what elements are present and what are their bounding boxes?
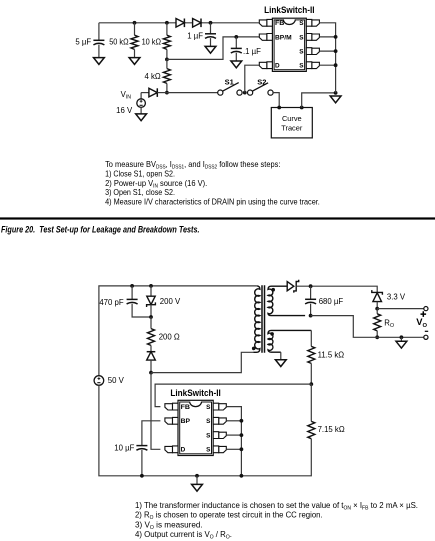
pin FB (left row 1) — [259, 20, 267, 26]
wire S pin row2 to rail (bottom) — [226, 420, 241, 422]
pin S (right row 4) — [312, 62, 320, 68]
svg-text:VO: VO — [416, 316, 427, 329]
wire Vin diode anode lead — [141, 92, 149, 94]
svg-text:7.15 kΩ: 7.15 kΩ — [318, 425, 345, 434]
svg-text:FB: FB — [275, 20, 285, 27]
node after diodes — [209, 21, 213, 25]
output terminal plus — [424, 307, 428, 311]
wire diode to drain node — [150, 360, 152, 373]
wire 1uF bottom lead — [210, 38, 212, 46]
svg-text:10 kΩ: 10 kΩ — [142, 38, 162, 47]
wire S2 to curve tracer — [273, 93, 279, 108]
source Vin 16V — [137, 99, 146, 108]
svg-text:S: S — [299, 34, 304, 41]
node rail-50k junction — [133, 21, 137, 25]
capacitor 0.1 uF — [231, 47, 242, 49]
pin FB (left row 1) — [165, 404, 173, 410]
node curve tracer left terminal — [277, 106, 281, 110]
pin S (right row 2) — [312, 34, 320, 40]
wire 5uF top lead — [98, 23, 100, 41]
wire 10k node to BP/M — [167, 37, 259, 60]
pin S (right row 3) — [219, 432, 227, 438]
transformer T1 secondary winding — [268, 286, 305, 315]
wire plus node to terminal — [377, 308, 424, 310]
node BP/M - 0.1uF junction — [234, 35, 238, 39]
wire S pin row3 to rail — [319, 50, 335, 52]
node S rail row3 (bottom) — [240, 433, 244, 437]
polarity dot bias winding — [270, 332, 274, 336]
wire 470pF bottom lead — [132, 304, 151, 317]
pin S (right row 2) — [219, 418, 227, 424]
pin BP/M (left row 2) — [259, 34, 267, 40]
wire bottom rail ground stem — [196, 476, 198, 485]
wire 680uF top lead — [310, 286, 312, 299]
node S rail row2 (bottom) — [240, 419, 244, 423]
curve tracer box — [271, 108, 312, 138]
node S rail row3 — [334, 49, 338, 53]
node curve tracer right terminal — [300, 106, 304, 110]
resistor 50 kOhm — [131, 35, 138, 49]
node 680uF bottom junction — [309, 314, 313, 318]
wire Vin source top lead — [140, 93, 142, 99]
node rail-10k junction — [165, 21, 169, 25]
wire drain to D pin (bottom IC) — [151, 373, 160, 450]
svg-text:11.5 kΩ: 11.5 kΩ — [318, 350, 345, 359]
ground at bottom rail — [192, 484, 203, 491]
svg-text:S: S — [299, 63, 304, 70]
svg-text:680 µF: 680 µF — [319, 297, 344, 306]
svg-text:10 µF: 10 µF — [114, 444, 134, 453]
wire 5uF bottom lead — [98, 45, 100, 58]
switch S1 left terminal — [218, 90, 223, 95]
pin S (right row 1) — [312, 20, 320, 26]
wire diode to output rail — [296, 286, 377, 292]
svg-text:.1 µF: .1 µF — [243, 47, 261, 56]
polarity dot secondary — [271, 288, 275, 292]
pin D (left row 4) — [259, 62, 267, 68]
pin BP (left row 2) — [165, 418, 173, 424]
svg-text:4 kΩ: 4 kΩ — [144, 72, 160, 81]
ground below 5uF — [94, 58, 105, 65]
svg-text:BP/M: BP/M — [275, 34, 292, 41]
svg-text:D: D — [181, 447, 186, 454]
wire drain node to primary — [151, 352, 253, 372]
wire 0.1uF top lead — [235, 37, 237, 49]
resistor Ro — [374, 314, 381, 331]
wire 50V left rail bottom — [99, 385, 311, 476]
capacitor 5 uF — [93, 39, 104, 41]
node 680uF top junction — [309, 284, 313, 288]
wire S pin row4 to rail (bottom) — [226, 448, 241, 450]
capacitor 680 uF — [305, 298, 316, 300]
wire output ground stem — [400, 337, 402, 341]
svg-text:4) Output current is VO / RO.: 4) Output current is VO / RO. — [135, 530, 232, 541]
svg-text:RO: RO — [384, 318, 394, 329]
svg-text:50 V: 50 V — [108, 376, 125, 385]
wire Vin diode cathode lead — [157, 92, 167, 94]
wire S pin row3 to rail (bottom) — [226, 434, 241, 436]
ground below 0.1uF — [231, 61, 242, 68]
switch S1 right terminal — [237, 90, 242, 95]
svg-text:200 Ω: 200 Ω — [159, 332, 180, 341]
node ground bottom rail junction — [195, 474, 199, 478]
wire zener to plus node — [376, 302, 378, 309]
resistor 11.5 kOhm — [308, 346, 315, 363]
capacitor 10 uF — [136, 445, 147, 447]
wire 10uF bottom lead — [141, 450, 143, 476]
svg-text:5 µF: 5 µF — [75, 38, 91, 47]
svg-text:16 V: 16 V — [116, 106, 133, 115]
resistor 4 kOhm — [163, 69, 170, 84]
wire zener bottom lead — [150, 305, 152, 317]
svg-text:VIN: VIN — [121, 90, 132, 101]
ground at output return — [396, 341, 407, 348]
node output ground junction — [400, 335, 404, 339]
node S rail row2 — [334, 35, 338, 39]
svg-text:LinkSwitch-II: LinkSwitch-II — [170, 388, 220, 398]
wire zener 200V top lead — [150, 286, 152, 296]
diode D5 (clamp) — [147, 351, 156, 353]
wire BP pin to 10uF — [142, 421, 161, 446]
svg-text:3.3 V: 3.3 V — [387, 293, 406, 302]
node rail-470pF junction — [130, 284, 134, 288]
ground below bias winding — [275, 360, 286, 367]
node S rail row4 — [334, 63, 338, 67]
IC U2 LinkSwitch-II (bottom) — [178, 400, 213, 455]
wire secondary return — [311, 316, 425, 338]
op IC U1 LinkSwitch-II (top) — [272, 18, 306, 71]
svg-text:1) Close S1, open S2.: 1) Close S1, open S2. — [105, 169, 175, 178]
wire 1uF top lead — [210, 23, 212, 34]
node source-return ground junction — [334, 91, 338, 95]
wire 4k bottom lead — [166, 83, 168, 92]
wire Ro bottom lead — [376, 331, 378, 338]
svg-text:1 µF: 1 µF — [187, 32, 203, 41]
svg-text:D: D — [275, 63, 280, 70]
wire S pin row4 to rail — [319, 64, 335, 66]
node output plus junction — [375, 307, 379, 311]
svg-text:S: S — [206, 418, 211, 425]
switch S2 arm — [252, 83, 268, 91]
ground below 1uF — [205, 46, 216, 53]
svg-text:S: S — [206, 433, 211, 440]
capacitor 1 uF — [205, 33, 216, 35]
zener diode VR2 3.3V — [372, 290, 383, 295]
wire 200ohm to diode — [150, 345, 152, 351]
svg-text:S2: S2 — [257, 77, 266, 86]
switch S2 right terminal — [268, 90, 273, 95]
svg-text:S: S — [299, 49, 304, 56]
node rail-zener junction — [149, 284, 153, 288]
svg-text:BP: BP — [181, 418, 191, 425]
wire 11.5k to FB node — [310, 363, 312, 384]
wire FB node to FB pin — [155, 384, 311, 407]
resistor 200 Ohm — [148, 329, 155, 346]
diode D3 (Vin series) — [149, 88, 157, 97]
svg-text:LinkSwitch-II: LinkSwitch-II — [264, 5, 314, 15]
node S rail bottom rail junction — [240, 474, 244, 478]
switch S1 arm — [223, 83, 239, 92]
transformer T1 primary winding — [253, 286, 260, 352]
ground at source rail — [330, 96, 341, 103]
wire bias winding to ground — [280, 352, 282, 360]
wire 0.1uF bottom lead — [235, 53, 237, 61]
wire S pin row1 to rail (bottom) — [226, 407, 241, 476]
svg-text:S: S — [206, 404, 211, 411]
svg-text:Curve: Curve — [282, 114, 302, 123]
node FB divider junction — [309, 382, 313, 386]
svg-text:FB: FB — [181, 404, 191, 411]
svg-text:200 V: 200 V — [160, 297, 181, 306]
capacitor 470 pF — [127, 298, 138, 300]
svg-text:470 pF: 470 pF — [99, 298, 124, 307]
pin S (right row 4) — [219, 446, 227, 452]
svg-text:Tracer: Tracer — [281, 124, 303, 133]
label plus sign — [421, 311, 427, 317]
pin D (left row 4) — [165, 446, 173, 452]
svg-text:S1: S1 — [225, 77, 234, 86]
schottky diode D4 (output rectifier) — [287, 282, 294, 291]
wire S pin row1 to rail — [319, 23, 335, 93]
diode D1 (series, top rail) — [176, 19, 184, 28]
source 50V DC — [94, 376, 104, 386]
separator rule — [0, 217, 435, 219]
wire node to S1 — [167, 92, 218, 94]
transformer T1 core — [262, 285, 265, 353]
wire Vin source bottom lead — [140, 107, 142, 114]
wire S pin row2 to rail — [319, 36, 335, 38]
polarity dot primary — [252, 347, 256, 351]
wire 10k top lead — [166, 23, 168, 35]
svg-text:50 kΩ: 50 kΩ — [109, 38, 129, 47]
wire 50k top lead — [134, 23, 136, 35]
wire 4k top lead — [166, 59, 168, 68]
node Ro bottom junction — [375, 335, 379, 339]
resistor 7.15 kOhm — [308, 421, 315, 438]
wire Ro top lead — [376, 309, 378, 314]
wire 10k bottom lead — [166, 49, 168, 59]
transformer T1 bias winding — [268, 330, 311, 352]
wire 470pF top lead — [131, 286, 133, 300]
wire D pin to switch center — [245, 65, 259, 92]
node S rail row4 (bottom) — [240, 447, 244, 451]
resistor 10 kOhm — [163, 35, 170, 49]
pin S (right row 1) — [219, 404, 227, 410]
switch S2 left terminal — [248, 90, 253, 95]
ground below Vin source — [136, 114, 147, 121]
wire 50V left rail top — [99, 286, 257, 376]
node Vin-4k-S1 junction — [165, 91, 169, 95]
svg-text:S: S — [206, 447, 211, 454]
wire top rail — [99, 22, 259, 24]
label minus sign — [425, 330, 428, 332]
wire 11.5k top lead — [310, 330, 312, 346]
svg-text:Figure 20. Test Set-up for Le: Figure 20. Test Set-up for Leakage and B… — [1, 225, 200, 235]
wire 50k bottom lead — [134, 49, 136, 57]
wire 200ohm top lead — [150, 317, 152, 329]
diode D2 (series, top rail) — [193, 19, 201, 28]
wire 7.15k top lead — [310, 384, 312, 421]
pin S (right row 3) — [312, 48, 320, 54]
node drain junction — [149, 371, 153, 375]
wire curve tracer to ground rail — [302, 93, 336, 108]
wire 680uF bottom lead — [310, 304, 312, 316]
output terminal minus — [424, 335, 428, 339]
node 10uF bottom rail junction — [140, 474, 144, 478]
node clamp bottom junction — [149, 315, 153, 319]
node switch center (drain) — [243, 91, 247, 95]
ground below 50k — [129, 58, 140, 65]
zener diode VR1 200V — [147, 295, 155, 297]
node 10k-4k junction — [165, 58, 169, 62]
svg-text:4) Measure I/V characteristics: 4) Measure I/V characteristics of DRAIN … — [105, 198, 320, 207]
svg-text:3) Open S1, close S2.: 3) Open S1, close S2. — [105, 188, 175, 197]
svg-text:S: S — [299, 20, 304, 27]
